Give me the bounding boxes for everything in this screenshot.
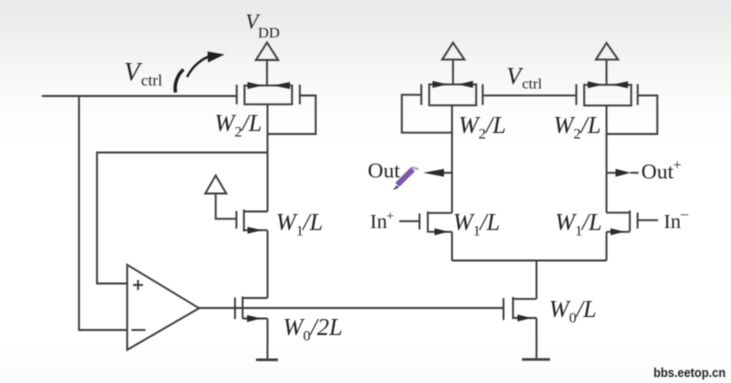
op-amp U1 body <box>127 265 199 350</box>
ground left bar <box>256 358 278 361</box>
transistor M2 left load body box <box>245 86 293 105</box>
svg-text:W: W <box>549 297 571 323</box>
transistor M5 In+ gate lead <box>399 220 419 222</box>
wire Out- stub <box>443 172 452 174</box>
wire Out+ column M4 drain <box>606 106 608 213</box>
transistor M1 W1/L channel <box>243 210 245 232</box>
transistor M4 right load left gate bar <box>575 84 577 105</box>
wire Vctrl input (left horizontal) <box>42 95 237 97</box>
transistor M1 W1/L source lead <box>244 229 268 231</box>
wire M0 source to ground <box>267 319 269 360</box>
op-amp U1 minus sign <box>132 329 146 331</box>
transistor M0 W0/2L source lead <box>243 318 268 320</box>
transistor M6 In- channel <box>629 211 631 232</box>
svg-text:0: 0 <box>303 329 311 345</box>
svg-text:/L: /L <box>478 210 500 236</box>
svg-text:/2L: /2L <box>309 315 343 341</box>
svg-text:/L: /L <box>575 297 597 323</box>
transistor M5 In+ channel <box>427 212 429 233</box>
wire M2 right gate wrap to drain <box>268 96 316 135</box>
wire M5 source to tail rail <box>451 232 453 261</box>
svg-text:DD: DD <box>258 26 280 42</box>
svg-text:W: W <box>554 113 576 139</box>
transistor M6 In- source lead <box>607 231 630 233</box>
svg-text:/L: /L <box>301 210 323 236</box>
transistor M1 W1/L gate bar <box>235 211 237 229</box>
wire Out+ stub <box>607 172 617 174</box>
svg-text:2: 2 <box>479 127 487 143</box>
wire Out+ stub after arrow <box>630 172 638 174</box>
wire rail to M7 drain <box>536 261 538 299</box>
transistor M6 In- gate lead <box>638 219 658 221</box>
wire feedback from drain node to op-amp non-inverting input <box>97 153 268 284</box>
arrow M0 source <box>247 315 262 322</box>
transistor M6 In- drain lead <box>607 212 630 214</box>
transistor M6 In- gate bar <box>637 213 639 229</box>
wire junction drop to op-amp inverting input <box>79 96 127 330</box>
transistor M7 W0/L gate bar <box>503 298 505 320</box>
svg-text:In: In <box>664 211 681 233</box>
power VDD triangle left <box>256 43 278 61</box>
svg-text:W: W <box>283 315 305 341</box>
wire main column M2 drain down to M1 drain <box>267 104 269 211</box>
annotation purple pen cursor over Out- <box>393 166 419 190</box>
transistor M3 load body box <box>429 84 476 105</box>
arrow M7 source <box>518 315 532 322</box>
wire M3 left gate wrap to drain <box>402 95 452 133</box>
svg-text:/L: /L <box>580 210 602 236</box>
transistor M7 W0/L source lead <box>513 317 537 319</box>
svg-text:W: W <box>555 210 577 236</box>
svg-text:+: + <box>386 210 394 225</box>
wire VDD stem to M4 source <box>606 60 608 85</box>
annotation curved arrow near Vctrl <box>175 52 224 93</box>
wire VDD stem to M3 source <box>452 60 454 85</box>
wire M6 source to tail rail <box>606 232 608 261</box>
power VDD triangle M3 <box>442 43 464 60</box>
transistor M0 W0/2L gate bar <box>234 298 236 320</box>
transistor M3 right load left gate bar <box>420 84 422 105</box>
transistor M5 In+ gate bar <box>419 214 421 230</box>
arrow M4 source left <box>588 81 603 88</box>
wire small VDD stem to M1 gate <box>216 194 237 219</box>
arrow M4 source right <box>612 81 628 88</box>
transistor M2 left load gate bar (right) <box>299 85 301 105</box>
transistor M1 W1/L drain lead <box>244 211 268 213</box>
svg-text:Out: Out <box>641 160 673 184</box>
transistor M4 right load right gate bar <box>637 84 639 105</box>
arrow M1 source <box>248 227 263 234</box>
transistor M5 In+ source lead <box>428 231 452 233</box>
svg-text:W: W <box>453 210 475 236</box>
svg-text:/L: /L <box>579 113 601 139</box>
arrow M6 source <box>611 228 625 235</box>
transistor M7 W0/L drain lead <box>513 298 537 300</box>
svg-text:/L: /L <box>484 113 506 139</box>
svg-text:V: V <box>507 64 524 90</box>
wire bias line op-amp output to W0 gates <box>199 307 503 309</box>
svg-text:/L: /L <box>240 111 262 137</box>
wire VDD stem to M2 source <box>266 60 268 86</box>
svg-text:W: W <box>276 210 298 236</box>
transistor M3 right load right gate bar <box>482 84 484 105</box>
svg-text:2: 2 <box>235 125 243 141</box>
power small VDD triangle at M1 gate <box>205 176 226 194</box>
svg-text:W: W <box>459 113 481 139</box>
svg-text:ctrl: ctrl <box>522 77 542 93</box>
svg-text:In: In <box>370 211 387 233</box>
arrow M2 source right <box>273 82 290 89</box>
wire Out- column M3 drain <box>451 105 453 213</box>
transistor M7 W0/L channel <box>512 297 514 319</box>
transistor M2 left load gate bar (left) <box>236 85 238 105</box>
power VDD triangle M4 <box>596 43 618 60</box>
wire M7 source to ground <box>536 318 538 358</box>
transistor M0 W0/2L channel <box>242 297 244 319</box>
op-amp U1 plus sign <box>133 280 143 290</box>
transistor M4 load body box <box>584 85 631 106</box>
transistor M0 W0/2L drain lead <box>243 297 268 299</box>
wire M1 source down to M0 drain <box>267 230 269 298</box>
wire M4 right gate wrap to drain <box>607 95 658 134</box>
arrow M2 source left <box>248 82 263 89</box>
svg-text:–: – <box>680 207 689 223</box>
ground right bar <box>522 358 550 361</box>
arrow M3 source left <box>433 81 448 88</box>
arrow M3 source right <box>458 81 473 88</box>
svg-text:bbs.eetop.cn: bbs.eetop.cn <box>654 365 726 380</box>
arrow Out- pointing left <box>423 169 444 177</box>
arrow M5 source <box>435 228 449 235</box>
transistor M5 In+ drain lead <box>428 212 452 214</box>
wire Vctrl between load gates <box>483 94 577 96</box>
svg-text:2: 2 <box>574 127 582 143</box>
svg-text:0: 0 <box>569 311 577 327</box>
svg-text:Out: Out <box>368 159 400 183</box>
label watermark bbs.eetop.cn <box>654 365 726 380</box>
wire tail rail <box>452 260 607 262</box>
svg-text:W: W <box>215 111 237 137</box>
arrow Out+ pointing right <box>616 169 631 177</box>
svg-text:ctrl: ctrl <box>141 73 163 90</box>
svg-text:+: + <box>673 158 681 174</box>
